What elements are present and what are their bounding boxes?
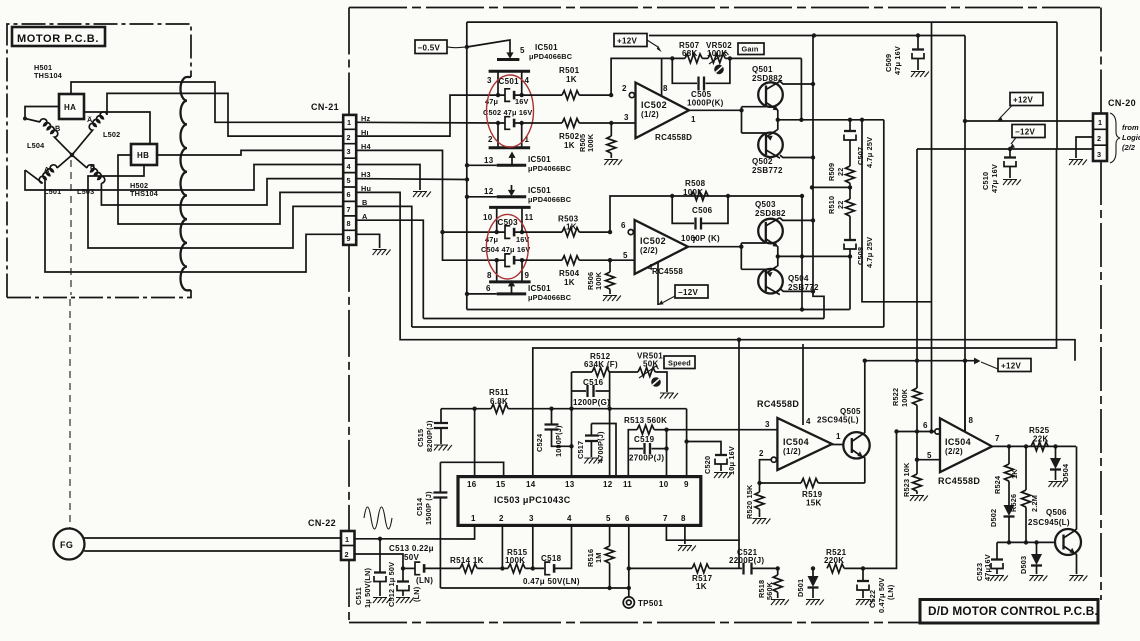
wire output A inner drop [862, 120, 932, 302]
wire Q505 collector [863, 361, 865, 434]
svg-text:2: 2 [622, 84, 627, 93]
svg-text:C517: C517 [576, 441, 585, 459]
analog switch 2 bottom bar [489, 280, 530, 283]
svg-text:Speed: Speed [668, 359, 691, 368]
IC503 uPC1043C [458, 477, 701, 526]
svg-text:R513 560K: R513 560K [624, 416, 667, 425]
svg-text:1μ 50V(LN): 1μ 50V(LN) [363, 568, 372, 608]
capacitor C509 [916, 33, 920, 37]
svg-text:RC4558: RC4558 [652, 267, 683, 276]
svg-text:6: 6 [347, 190, 351, 199]
svg-text:Q502: Q502 [752, 157, 773, 166]
wire feedback2 up [610, 196, 802, 232]
resistor R504 [522, 259, 562, 261]
svg-text:3: 3 [347, 147, 351, 156]
svg-text:1K: 1K [564, 278, 575, 287]
capacitor C513 [403, 567, 415, 569]
wire +12V to CN-20 [965, 120, 1093, 122]
svg-text:47μ 16V: 47μ 16V [990, 164, 999, 193]
svg-text:13: 13 [484, 156, 494, 165]
resistor R511 [491, 404, 508, 413]
wire top rail [467, 21, 1057, 23]
outer border bottom [349, 622, 922, 624]
capacitor C523 [996, 542, 998, 559]
label +12V [614, 34, 647, 47]
wire IC503 pin2 down [501, 525, 503, 568]
svg-text:8: 8 [969, 416, 974, 425]
brace from logic [1110, 113, 1120, 163]
capacitor C504 [495, 258, 499, 262]
svg-text:CN-20: CN-20 [1108, 98, 1136, 108]
wire -12V riser [1056, 22, 1058, 149]
svg-text:10: 10 [483, 213, 493, 222]
pin 2 [497, 123, 499, 148]
svg-text:C506: C506 [692, 206, 713, 215]
svg-text:2200P(J): 2200P(J) [729, 556, 764, 565]
ground CN-20 pin2 [1069, 160, 1087, 166]
diode D501 [811, 566, 815, 570]
wire HA right to HB top [84, 112, 150, 144]
svg-text:CN-21: CN-21 [311, 102, 339, 112]
svg-text:1K: 1K [566, 75, 577, 84]
svg-text:560K: 560K [765, 581, 774, 600]
svg-text:7: 7 [663, 514, 668, 523]
svg-text:2SD882: 2SD882 [752, 74, 783, 83]
svg-text:A̅: A̅ [87, 115, 93, 124]
capacitor C519 [628, 448, 666, 450]
wire output A drop [883, 120, 885, 327]
wire IC504-2 pin5 [915, 458, 919, 462]
FG generator [54, 529, 85, 560]
wire IC503 pin7 to IC504 [666, 525, 739, 568]
svg-text:from: from [1122, 123, 1139, 132]
svg-text:12: 12 [603, 480, 613, 489]
resistor R523 [913, 474, 922, 491]
wire output A [778, 119, 884, 121]
ground pin4 [413, 192, 431, 198]
svg-text:8: 8 [347, 219, 351, 228]
svg-text:1: 1 [471, 514, 476, 523]
svg-text:4.7μ 25V: 4.7μ 25V [865, 137, 874, 168]
svg-text:C519: C519 [634, 435, 655, 444]
svg-text:B̅: B̅ [54, 124, 60, 133]
wire HA left to L504 [25, 107, 59, 123]
svg-text:C516: C516 [583, 378, 604, 387]
svg-text:0.47μ 50V: 0.47μ 50V [877, 578, 886, 613]
svg-text:3: 3 [529, 514, 534, 523]
svg-text:R526: R526 [1009, 494, 1018, 512]
svg-text:+12V: +12V [1013, 96, 1033, 105]
resistor R501 [522, 94, 562, 96]
wire H4 down to C503/C504 rows [356, 150, 497, 260]
wire C516/R512 right node to pin12 [609, 372, 611, 477]
wire Hz to C502 row [356, 121, 498, 124]
D/D motor control PCB outer border top [349, 7, 1101, 9]
wire feedback up [611, 58, 685, 95]
node C524 [549, 407, 553, 411]
wire base rail Q503/Q504 [740, 243, 742, 269]
resistor R516 [609, 525, 611, 546]
resistor R506 [609, 260, 611, 272]
svg-text:5: 5 [623, 251, 628, 260]
svg-text:IC504: IC504 [783, 437, 809, 447]
wire -12V to CN-20 [917, 148, 1093, 150]
resistor R515 [508, 564, 525, 573]
wire IC504-2 output [992, 445, 1076, 447]
wire HB right feedthrough [157, 154, 186, 156]
wire HB left stub [118, 155, 186, 224]
svg-text:1000P(J): 1000P(J) [554, 425, 563, 457]
svg-text:13: 13 [565, 480, 575, 489]
svg-text:2: 2 [1097, 134, 1101, 143]
outer border right [1100, 8, 1102, 601]
capacitor C512 [402, 568, 404, 581]
svg-text:2SD882: 2SD882 [755, 209, 786, 218]
svg-text:C524: C524 [535, 433, 544, 452]
bus wire B-drive [467, 309, 850, 311]
ground pin9 [373, 250, 391, 256]
svg-text:2: 2 [345, 550, 349, 559]
capacitor C515 [440, 409, 442, 423]
svg-text:2.2M: 2.2M [1030, 495, 1039, 512]
capacitor C501 [496, 93, 500, 97]
svg-text:C513 0.22μ: C513 0.22μ [389, 544, 434, 553]
svg-text:1: 1 [836, 432, 841, 441]
svg-text:IC501: IC501 [528, 186, 551, 195]
wire FG to CN-22 pin2 [84, 550, 341, 552]
svg-text:1: 1 [347, 118, 351, 127]
svg-text:16: 16 [467, 480, 477, 489]
svg-text:CN-22: CN-22 [308, 518, 336, 528]
label Speed [664, 356, 695, 369]
svg-text:1M: 1M [594, 552, 603, 563]
node winding centre [70, 153, 74, 157]
svg-text:R501: R501 [559, 66, 580, 75]
svg-text:5: 5 [927, 451, 932, 460]
ground C515 [434, 445, 452, 451]
diode D503 [1034, 540, 1038, 544]
svg-text:2700P(J): 2700P(J) [629, 454, 664, 463]
wire Q506 emitter to ground [1075, 553, 1077, 574]
wire L503 feedthrough [101, 183, 186, 205]
svg-text:4: 4 [347, 162, 352, 171]
wire pin4 to ground [356, 165, 420, 191]
svg-text:50K: 50K [643, 360, 659, 369]
svg-text:L502: L502 [103, 130, 120, 139]
node op-amp input [609, 93, 613, 97]
svg-text:50V: 50V [404, 553, 419, 562]
svg-text:RC4558D: RC4558D [757, 399, 799, 409]
switch control pin 5 [509, 50, 511, 53]
svg-text:D501: D501 [796, 579, 805, 597]
capacitor C524 [551, 409, 553, 424]
svg-text:1000P(K): 1000P(K) [687, 99, 724, 108]
svg-text:14: 14 [526, 480, 536, 489]
svg-text:5: 5 [606, 514, 611, 523]
op-amp IC502 (1/2) [629, 93, 634, 98]
test point TP501 [628, 588, 630, 597]
resistor R521 [827, 564, 844, 573]
wire CN-22 pin2 to C512/C513 [355, 554, 404, 568]
wire motor to CN-21 pin2 [186, 93, 343, 136]
wire IC504-1 pin2 [760, 460, 772, 483]
resistor R517 [629, 567, 692, 569]
svg-text:C511: C511 [354, 587, 363, 605]
svg-text:C503: C503 [498, 218, 519, 227]
svg-text:10μ 16V: 10μ 16V [727, 446, 736, 475]
ground C517 [584, 458, 602, 464]
wire Q502 emitter up [777, 120, 779, 130]
svg-text:D/D MOTOR CONTROL P.C.B.: D/D MOTOR CONTROL P.C.B. [928, 604, 1098, 618]
wire motor to CN-21 pin6 [186, 192, 343, 224]
svg-text:9: 9 [525, 271, 530, 280]
svg-text:10: 10 [659, 480, 669, 489]
svg-text:IC501: IC501 [528, 155, 551, 164]
red ellipse around C503/C504 [486, 214, 528, 279]
svg-text:12: 12 [484, 187, 494, 196]
svg-text:3: 3 [1097, 150, 1101, 159]
resistor R509 [846, 166, 855, 183]
svg-text:7: 7 [995, 434, 1000, 443]
svg-text:9: 9 [347, 234, 351, 243]
svg-text:2SC945(L): 2SC945(L) [1028, 518, 1070, 527]
label +12V lower [998, 359, 1031, 372]
wire Hu down to bus [356, 192, 1075, 360]
svg-text:22: 22 [836, 167, 845, 176]
wire H3 to control rail [356, 178, 467, 181]
svg-text:R509: R509 [827, 163, 836, 181]
coil L502 [72, 112, 107, 155]
wire to IC504 pin3 [667, 429, 778, 431]
capacitor C522 [861, 566, 865, 570]
wire +12V rail lower [865, 360, 974, 362]
svg-text:4: 4 [567, 514, 572, 523]
svg-text:C504 47μ 16V: C504 47μ 16V [481, 245, 530, 254]
wire IC503 pin3 down [532, 525, 534, 568]
svg-text:Q504: Q504 [788, 274, 809, 283]
svg-text:IC504: IC504 [945, 437, 971, 447]
svg-text:3: 3 [624, 113, 629, 122]
pin 1 [521, 123, 523, 148]
svg-text:100K: 100K [505, 556, 525, 565]
label -12V op-amp2 [675, 285, 708, 298]
ground C520 [714, 473, 732, 479]
svg-text:(LN): (LN) [886, 584, 895, 600]
svg-text:47μ 16V: 47μ 16V [893, 46, 902, 75]
svg-text:+12V: +12V [1001, 362, 1021, 371]
svg-text:(LN): (LN) [416, 576, 433, 585]
wire winding tap feedthrough [45, 180, 186, 272]
wire motor to CN-21 pin4 [186, 165, 343, 191]
svg-text:100K: 100K [594, 271, 603, 290]
svg-text:TP501: TP501 [638, 599, 663, 608]
wire Q506 base row [997, 541, 1055, 543]
svg-text:R520 15K: R520 15K [745, 484, 754, 519]
hall sensor HB (H502) [131, 144, 157, 165]
wire Q504 emitter up [777, 256, 779, 266]
wire Q506 collector [1075, 446, 1077, 530]
wire IC504-1 pin4 stub [802, 344, 804, 425]
svg-text:R510: R510 [827, 196, 836, 214]
coil L504 [40, 119, 72, 155]
wire Q501 emitter down [777, 110, 779, 120]
svg-text:1K: 1K [566, 223, 577, 232]
motor PCB border [7, 24, 191, 298]
wire Q504 collector to rail [780, 289, 813, 292]
node divider mid [848, 185, 852, 189]
analog switch 2 top bar [489, 206, 530, 209]
svg-text:6: 6 [486, 284, 491, 293]
wire divider tap [812, 186, 850, 188]
wire B down to bus [356, 206, 412, 327]
svg-text:IC502: IC502 [640, 236, 666, 246]
svg-text:(2/2: (2/2 [1122, 143, 1136, 152]
svg-text:FG: FG [60, 540, 73, 550]
svg-text:4: 4 [806, 417, 811, 426]
wire collector rail [813, 36, 824, 319]
svg-text:6: 6 [625, 514, 630, 523]
red ellipse around C501/C502 [487, 75, 534, 147]
MOTOR P.C.B. label box [12, 27, 105, 46]
svg-text:μPD4066BC: μPD4066BC [528, 195, 572, 204]
svg-text:R522: R522 [891, 388, 900, 406]
resistor R503 [522, 231, 562, 233]
coil L503 [72, 155, 105, 183]
wire long riser [931, 22, 933, 431]
svg-text:8: 8 [681, 514, 686, 523]
svg-text:2: 2 [488, 135, 493, 144]
svg-text:0.47μ 50V(LN): 0.47μ 50V(LN) [523, 577, 580, 586]
wire op-amp2 output to bases [688, 246, 741, 248]
svg-text:2SC945(L): 2SC945(L) [817, 416, 859, 425]
svg-text:C522: C522 [868, 590, 877, 608]
wire to IC504 pin6 [863, 432, 897, 569]
resistor R519 [760, 482, 802, 484]
svg-text:634K (F): 634K (F) [584, 360, 618, 369]
wire supply drop right [964, 36, 966, 432]
switch control pin 6 [497, 292, 527, 295]
bus wire pin14 feedback [533, 150, 1057, 477]
svg-text:μPD4066BC: μPD4066BC [528, 293, 572, 302]
svg-text:(1/2): (1/2) [783, 447, 801, 456]
resistor R525 [1031, 442, 1048, 451]
diode D504 [1055, 446, 1057, 458]
FG waveform symbol [364, 507, 392, 529]
svg-text:1K: 1K [1010, 469, 1019, 479]
svg-text:RC4558D: RC4558D [938, 476, 980, 486]
wire motor to CN-21 pin5 [186, 179, 343, 205]
wire Q503 emitter down [777, 246, 779, 256]
wire feedback drop [800, 58, 802, 119]
wire R511 row [441, 408, 491, 410]
svg-text:R523 10K: R523 10K [902, 462, 911, 497]
pin 11 [521, 207, 523, 232]
svg-text:R524: R524 [993, 475, 1002, 494]
ground C511 [373, 598, 391, 604]
ground C509 [911, 72, 929, 78]
node op-amp2 inputs [608, 230, 612, 234]
wire Hi jog up to C501 row [356, 95, 498, 136]
svg-text:B: B [90, 162, 95, 171]
svg-text:2: 2 [499, 514, 504, 523]
svg-text:3: 3 [487, 76, 492, 85]
wire CN-20 pin2 to ground [1076, 137, 1093, 158]
svg-text:Q503: Q503 [755, 200, 776, 209]
svg-text:8: 8 [487, 271, 492, 280]
svg-text:1: 1 [345, 535, 349, 544]
capacitor C521 [740, 567, 742, 569]
svg-text:C515: C515 [416, 429, 425, 447]
dashed line to FG [70, 160, 72, 295]
wire control rail [466, 22, 468, 309]
svg-text:2: 2 [347, 133, 351, 142]
pin 3 [497, 71, 499, 95]
capacitor C507 [849, 120, 851, 131]
wire base rail Q501/Q502 [741, 107, 743, 133]
svg-text:22K: 22K [1033, 435, 1049, 444]
svg-text:RC4558D: RC4558D [655, 133, 692, 142]
pin 4 [521, 71, 523, 95]
resistor R505 [610, 123, 612, 136]
svg-text:IC502: IC502 [641, 100, 667, 110]
svg-text:220K: 220K [824, 556, 844, 565]
op-amp IC504 (2/2) [935, 429, 940, 434]
svg-text:H3: H3 [361, 170, 371, 179]
svg-text:3: 3 [765, 420, 770, 429]
svg-text:D504: D504 [1061, 463, 1070, 482]
resistor R513 [628, 430, 637, 477]
svg-text:C512 1μ 50V: C512 1μ 50V [387, 562, 396, 607]
svg-text:C520: C520 [703, 456, 712, 474]
wire IC504-2 pin6 [915, 429, 919, 433]
svg-text:1K: 1K [696, 582, 707, 591]
svg-text:8200P(J): 8200P(J) [425, 420, 434, 452]
svg-text:C508: C508 [856, 247, 865, 265]
svg-text:1: 1 [1098, 118, 1102, 127]
svg-text:4.7μ 25V: 4.7μ 25V [865, 237, 874, 268]
capacitor C514 [439, 462, 441, 492]
svg-text:8: 8 [663, 84, 668, 93]
svg-text:C501: C501 [499, 77, 520, 86]
svg-text:5: 5 [347, 176, 351, 185]
svg-text:1200P(G): 1200P(G) [573, 398, 610, 407]
op-amp IC502 (2/2) [628, 230, 633, 235]
svg-text:Gaın: Gaın [742, 45, 759, 54]
svg-text:D502: D502 [989, 509, 998, 527]
wire HB bottom stub [88, 165, 186, 248]
outer border left [348, 8, 350, 623]
svg-text:μPD4066BC: μPD4066BC [528, 164, 572, 173]
svg-text:Q506: Q506 [1046, 508, 1067, 517]
svg-text:15: 15 [496, 480, 506, 489]
svg-text:6.8K: 6.8K [490, 397, 508, 406]
svg-text:100K: 100K [900, 388, 909, 407]
hall sensor HA (H501) [59, 94, 84, 119]
svg-text:2SB772: 2SB772 [752, 166, 783, 175]
diode D502 [1004, 505, 1015, 516]
svg-text:−12V: −12V [678, 288, 698, 297]
analog switch 1 top bar [489, 70, 530, 73]
wire pin9 riser [686, 409, 688, 477]
svg-text:6: 6 [621, 221, 626, 230]
node output B [776, 254, 780, 258]
wire IC503 pin6 down [628, 525, 630, 588]
resistor R522 [913, 388, 922, 405]
resistor R524 [1008, 446, 1010, 464]
capacitor C506 [672, 196, 728, 223]
svg-text:16V: 16V [515, 97, 529, 106]
trimmer screw VR502 [714, 65, 724, 75]
